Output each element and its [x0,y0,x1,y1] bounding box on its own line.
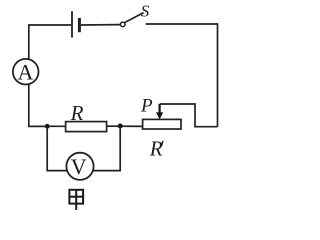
wire: node A to bottom-left corner and up to ammeter bottom [29,84,47,126]
wire: node B to resistor right terminal [107,125,121,127]
wire: rheostat left terminal to node B [120,125,142,127]
svg-text:V: V [71,154,87,179]
wire: top-left corner run (battery to left vertical down to ammeter top) [29,25,71,59]
svg-text:R: R [149,137,163,161]
voltmeter U2 (V) [66,153,93,180]
wire: battery to switch pivot [81,24,120,26]
battery cell [72,11,79,37]
node A (junction dot left) [45,124,50,129]
rheostat slider arrow P [156,104,163,119]
label 甲 (drawn strokes) [69,190,84,210]
wire: voltmeter branch left drop [47,126,66,170]
wire: right-side step to rheostat slider [160,104,218,127]
rheostat R' body [143,119,181,129]
svg-text:P: P [140,95,153,116]
svg-text:R: R [70,101,84,125]
wire: voltmeter branch right drop [93,126,120,170]
ammeter U1 (A) [13,59,39,85]
wire: switch contact to top-right corner and down right side [146,24,218,127]
switch S (pivot + blade) [120,13,143,27]
svg-text:S: S [141,1,150,20]
svg-text:A: A [18,59,34,84]
wire: resistor left terminal to node A [47,125,65,127]
resistor R [66,122,107,132]
node B (junction dot right) [118,124,123,129]
